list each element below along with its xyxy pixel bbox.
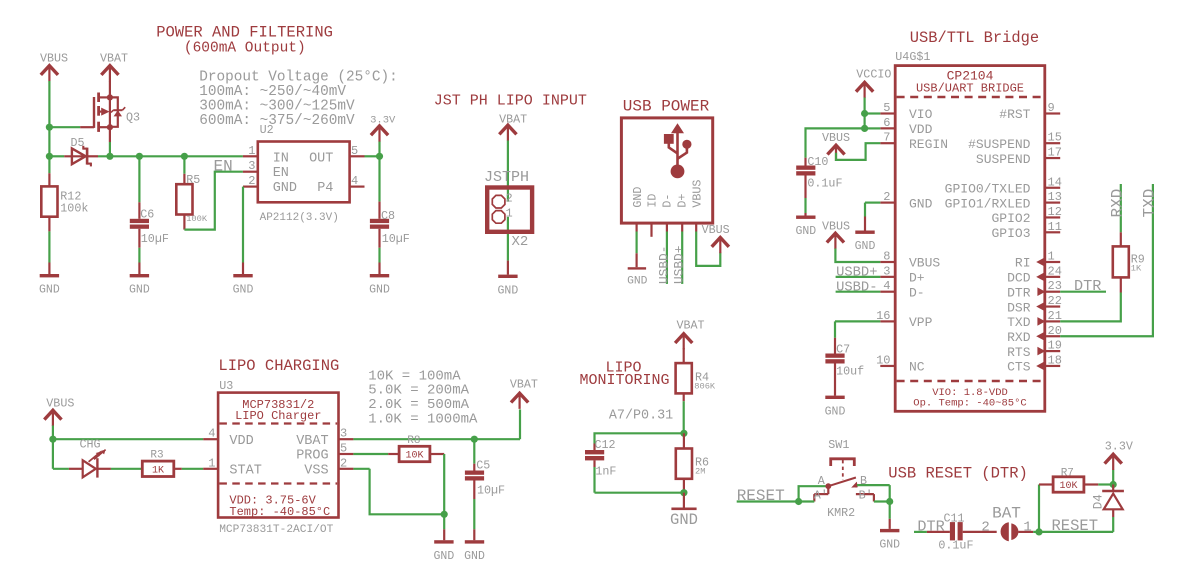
svg-text:USBD+: USBD+ (672, 246, 687, 284)
svg-text:OUT: OUT (309, 151, 333, 166)
svg-text:10uf: 10uf (836, 365, 864, 379)
pin 15 #SUSPEND (968, 131, 1062, 152)
svg-text:Q3: Q3 (126, 111, 140, 125)
net label EN (214, 157, 233, 175)
junction R7/D4 (1110, 481, 1117, 488)
pin 1 label (BAT) (1023, 519, 1031, 535)
net label RESET (right) (1052, 517, 1099, 535)
svg-text:4: 4 (883, 279, 890, 293)
svg-text:10K: 10K (405, 451, 423, 462)
pin 11 GPIO3 (991, 220, 1061, 241)
pin 5 OUT (350, 144, 365, 158)
svg-text:MONITORING: MONITORING (580, 372, 670, 389)
junction VDD tap (49, 436, 56, 443)
note prog resistor table (368, 368, 478, 427)
svg-text:0.1uF: 0.1uF (807, 176, 842, 190)
svg-text:VBUS: VBUS (46, 397, 74, 411)
supply VBAT (charger) (510, 378, 538, 409)
svg-text:USBD-: USBD- (836, 280, 877, 295)
svg-text:0.1uF: 0.1uF (938, 539, 973, 553)
capacitor C12 (585, 438, 616, 493)
junction VBUS/gate (46, 124, 53, 131)
svg-text:1: 1 (1023, 519, 1031, 535)
svg-text:VBAT: VBAT (499, 113, 527, 127)
svg-text:PROG: PROG (296, 449, 328, 464)
wire net DTR (1060, 291, 1106, 293)
diode D4 (1092, 485, 1124, 518)
pin 1 STAT num (208, 456, 215, 470)
wire VDD to C10 (806, 128, 865, 157)
svg-text:GND: GND (795, 225, 816, 238)
svg-text:RESET: RESET (1052, 517, 1099, 535)
pin 17 SUSPEND (976, 146, 1062, 167)
svg-text:GPIO3: GPIO3 (991, 226, 1030, 241)
svg-text:5: 5 (883, 101, 890, 115)
svg-text:D4: D4 (1092, 494, 1106, 509)
junction DTR/R7 (1035, 528, 1042, 535)
resistor R3 (142, 450, 182, 477)
svg-text:13: 13 (1048, 190, 1062, 204)
pin 3 VBAT (339, 427, 354, 441)
wire R5 to EN (184, 172, 243, 230)
pin 2 label (BAT) (981, 519, 989, 535)
svg-text:SUSPEND: SUSPEND (976, 152, 1031, 167)
svg-text:C10: C10 (807, 155, 828, 169)
title USB RESET (DTR) (888, 464, 1028, 482)
svg-text:GND: GND (855, 240, 876, 253)
svg-text:VDD: VDD (229, 434, 253, 449)
resistor R12 (41, 156, 88, 262)
wire R3 to STAT (182, 468, 218, 470)
wire VBUS to REGIN (836, 143, 880, 160)
supply VBAT (monitor) (675, 319, 704, 350)
svg-text:GND: GND (464, 550, 485, 563)
svg-text:ID: ID (646, 194, 660, 208)
wire D5 cathode rail (98, 155, 243, 157)
pin 13 GPIO1/RXLED (945, 190, 1062, 211)
svg-text:LIPO CHARGING: LIPO CHARGING (218, 357, 339, 375)
svg-text:RTS: RTS (1007, 345, 1031, 360)
switch SW1 KMR2 (814, 438, 874, 520)
pin 4 D- (880, 279, 924, 300)
svg-text:6: 6 (883, 116, 890, 130)
wire PROG to R8 (353, 453, 399, 455)
wire VBAT to X2 (507, 141, 509, 202)
supply VBAT (JST) (499, 113, 527, 141)
junction SW1 gnd (886, 498, 893, 505)
resistor R5 (176, 156, 208, 229)
resistor R4 (676, 348, 716, 433)
pin 16 VPP (876, 309, 933, 330)
pin 23 DTR (1007, 279, 1062, 300)
svg-text:VBUS: VBUS (690, 180, 704, 208)
svg-text:DCD: DCD (1007, 271, 1031, 286)
supply VBUS (USB) (702, 223, 730, 253)
wire VBUS down (52, 426, 54, 469)
svg-text:GND: GND (434, 550, 455, 563)
pin 4 VDD num (208, 427, 215, 441)
svg-text:17: 17 (1048, 146, 1062, 160)
title USB/TTL Bridge (910, 29, 1039, 47)
title POWER AND FILTERING (156, 24, 333, 57)
svg-text:2: 2 (340, 456, 347, 470)
pin 12 GPIO2 (991, 205, 1061, 226)
capacitor C6 (130, 156, 169, 262)
svg-text:GPIO2: GPIO2 (991, 211, 1030, 226)
svg-text:GND: GND (273, 181, 297, 196)
transistor Q3 (80, 93, 140, 132)
wire R9 to RXD label (1120, 184, 1122, 232)
wire BAT to junction (1033, 531, 1039, 533)
svg-text:GND: GND (879, 539, 900, 552)
supply VBUS (pin8) (822, 219, 850, 249)
ground C8 (369, 263, 390, 297)
wire VBAT rail (353, 409, 520, 439)
junction divider mid (680, 430, 687, 437)
svg-text:RXD: RXD (1108, 189, 1126, 218)
svg-text:MCP73831T-2ACI/OT: MCP73831T-2ACI/OT (219, 524, 333, 536)
junction divider bottom (680, 489, 687, 496)
svg-text:REGIN: REGIN (909, 137, 948, 152)
svg-text:IN: IN (273, 151, 289, 166)
note dropout voltage text (199, 70, 398, 129)
wire X2 to gnd (507, 217, 509, 261)
svg-text:3.3V: 3.3V (1105, 440, 1133, 454)
net label RXD (vertical) (1108, 189, 1126, 218)
svg-text:GND: GND (233, 284, 254, 297)
junction C5 tap (471, 436, 478, 443)
svg-text:VBUS: VBUS (822, 131, 850, 145)
svg-text:BAT: BAT (992, 505, 1021, 523)
svg-text:1: 1 (1048, 250, 1055, 264)
pin 22 DSR (1007, 294, 1062, 315)
svg-text:10: 10 (876, 353, 890, 367)
svg-text:TXD: TXD (1140, 189, 1158, 218)
wire VBAT to Q3 drain (109, 81, 111, 97)
solder jumper BAT (992, 505, 1033, 542)
svg-text:C5: C5 (476, 459, 490, 473)
svg-text:20: 20 (1048, 324, 1062, 338)
svg-text:1K: 1K (152, 466, 164, 477)
svg-text:19: 19 (1048, 339, 1062, 353)
svg-text:1nF: 1nF (595, 464, 616, 478)
svg-text:2M: 2M (695, 467, 705, 477)
ground pin2 (855, 217, 876, 254)
wire VBUS rail down (48, 81, 50, 156)
wire U2 gnd down (242, 187, 244, 263)
svg-text:10K: 10K (1059, 481, 1077, 492)
net label A7/P0.31 (609, 408, 673, 423)
svg-text:VSS: VSS (304, 464, 328, 479)
svg-text:7: 7 (883, 131, 890, 145)
svg-text:2: 2 (981, 519, 989, 535)
svg-text:GND: GND (39, 284, 60, 297)
junction VIO (861, 110, 868, 117)
ground C6 (129, 263, 150, 297)
svg-text:21: 21 (1048, 309, 1062, 323)
wire gate (49, 126, 80, 128)
svg-text:4: 4 (208, 427, 215, 441)
junction R5 tap (181, 153, 188, 160)
svg-text:GND: GND (627, 275, 648, 287)
svg-text:VIO: VIO (909, 107, 933, 122)
svg-text:4: 4 (351, 174, 358, 188)
svg-text:CHG: CHG (80, 438, 101, 452)
capacitor C5 (465, 439, 505, 529)
pin 10 NC (876, 353, 925, 374)
pin 8 VBUS (880, 250, 940, 271)
svg-text:U3: U3 (219, 379, 233, 393)
resistor R6 (676, 433, 709, 492)
svg-text:10µF: 10µF (382, 232, 410, 246)
svg-text:POWER AND FILTERING: POWER AND FILTERING (156, 24, 333, 42)
svg-text:D-: D- (661, 194, 675, 208)
wire D4 to RESET (1039, 517, 1113, 532)
ground U2 (233, 263, 254, 297)
wire to C12 (595, 433, 684, 443)
svg-text:A': A' (814, 489, 828, 503)
svg-text:GND: GND (498, 284, 519, 297)
supply VBAT (power) (100, 52, 128, 82)
pin 2 VSS (339, 456, 354, 470)
svg-text:DTR: DTR (1007, 285, 1031, 300)
resistor R7 (1039, 467, 1098, 492)
net label TXD (vertical) (1140, 189, 1158, 218)
svg-text:D+: D+ (909, 271, 925, 286)
wire R7 to 3.3V (1098, 470, 1113, 485)
svg-text:X2: X2 (512, 234, 529, 250)
svg-text:GND: GND (129, 284, 150, 297)
svg-text:14: 14 (1048, 175, 1062, 189)
svg-text:R3: R3 (150, 450, 163, 462)
connector X2 JSTPH (484, 169, 532, 250)
pin 2 GND (880, 190, 932, 211)
svg-text:2: 2 (883, 190, 890, 204)
wire SW1 B to gnd (857, 485, 890, 519)
svg-text:GND: GND (369, 284, 390, 297)
supply 3.3V (power) (370, 114, 396, 141)
svg-text:VDD: VDD (909, 122, 933, 137)
svg-text:1K: 1K (1131, 264, 1142, 274)
svg-text:P4: P4 (317, 181, 333, 196)
svg-text:CTS: CTS (1007, 360, 1031, 375)
wire VBUS pin to arrow (696, 223, 720, 266)
junction VSS/R8 (441, 511, 448, 518)
svg-text:C7: C7 (836, 343, 850, 357)
wire net USBD- (chip) (836, 291, 881, 293)
op-amp U2 AP2112 regulator (258, 123, 350, 224)
svg-text:KMR2: KMR2 (827, 506, 855, 520)
svg-text:VBAT: VBAT (677, 319, 705, 333)
net label USBD+ (836, 266, 877, 281)
svg-text:100K: 100K (186, 214, 208, 224)
svg-text:10µF: 10µF (141, 232, 169, 246)
wire C12 to gnd node (595, 492, 684, 494)
capacitor C8 (370, 156, 410, 262)
svg-text:#RST: #RST (999, 107, 1030, 122)
pin 1 RI (1015, 250, 1060, 271)
svg-text:D-: D- (909, 285, 925, 300)
pin 21 TXD (1007, 309, 1062, 330)
svg-text:15: 15 (1048, 131, 1062, 145)
svg-text:AP2112(3.3V): AP2112(3.3V) (260, 212, 339, 224)
svg-text:EN: EN (214, 157, 233, 175)
svg-text:USB/UART BRIDGE: USB/UART BRIDGE (916, 82, 1024, 96)
wire RXD pin to TXD label (1060, 184, 1153, 336)
wire TXD to R9 (1060, 293, 1121, 322)
title LIPO MONITORING (580, 360, 670, 390)
svg-text:3: 3 (883, 264, 890, 278)
svg-text:1: 1 (506, 207, 513, 221)
svg-text:JST PH LIPO INPUT: JST PH LIPO INPUT (434, 93, 587, 110)
svg-text:VCCIO: VCCIO (856, 68, 891, 82)
svg-text:10µF: 10µF (477, 484, 505, 498)
capacitor C11 (938, 512, 996, 553)
svg-text:2: 2 (248, 174, 255, 188)
capacitor C7 (825, 338, 864, 396)
wire OUT to 3.3V (365, 141, 380, 156)
svg-text:VBUS: VBUS (702, 223, 730, 237)
net label USBD+ (vertical) (672, 246, 687, 284)
svg-text:A7/P0.31: A7/P0.31 (609, 408, 673, 423)
svg-text:USB/TTL Bridge: USB/TTL Bridge (910, 29, 1039, 47)
pin 4 P4 (350, 174, 365, 188)
svg-text:TXD: TXD (1007, 315, 1031, 330)
junction D5/Q3 (106, 153, 113, 160)
svg-text:VBUS: VBUS (909, 256, 940, 271)
wire net USBD- (666, 223, 668, 284)
svg-text:9: 9 (1048, 101, 1055, 115)
svg-text:RXD: RXD (1007, 330, 1031, 345)
svg-text:3.3V: 3.3V (370, 114, 396, 126)
title JST PH LIPO INPUT (434, 93, 587, 110)
svg-text:VPP: VPP (909, 315, 933, 330)
svg-text:VBUS: VBUS (822, 219, 850, 233)
pin ID stub (650, 223, 652, 237)
svg-text:11: 11 (1048, 220, 1062, 234)
pin 6 VDD (880, 116, 932, 137)
svg-text:5: 5 (351, 144, 358, 158)
resistor R9 (1113, 232, 1145, 292)
svg-text:USB POWER: USB POWER (623, 97, 710, 115)
pin 24 DCD (1007, 264, 1062, 285)
wire Q3 source down (109, 127, 111, 156)
svg-text:1: 1 (208, 456, 215, 470)
svg-text:100k: 100k (60, 201, 88, 215)
capacitor C10 (796, 155, 842, 213)
pin 3 D+ (880, 264, 925, 285)
svg-text:EN: EN (273, 166, 289, 181)
svg-text:806K: 806K (694, 382, 716, 392)
svg-text:C11: C11 (944, 512, 965, 526)
wire VBUS to pin8 (835, 249, 880, 263)
ground R12 (39, 263, 60, 297)
wire net USBD+ (chip) (836, 276, 881, 278)
net label DTR (chip) (1074, 277, 1101, 295)
svg-text:5: 5 (340, 442, 347, 456)
svg-text:C12: C12 (595, 438, 616, 452)
junction RESET (795, 498, 802, 505)
svg-text:Temp: -40-85°C: Temp: -40-85°C (229, 505, 330, 519)
wire to D5 anode (49, 155, 64, 157)
svg-text:1: 1 (248, 144, 255, 158)
wire GND pin 2 (865, 203, 880, 217)
svg-text:18: 18 (1048, 353, 1062, 367)
svg-text:GPIO0/TXLED: GPIO0/TXLED (945, 181, 1031, 196)
junction VDD (861, 125, 868, 132)
svg-text:12: 12 (1048, 205, 1062, 219)
svg-text:GND: GND (670, 511, 698, 529)
ground SW1 (879, 519, 900, 552)
ground X2 (498, 261, 519, 298)
svg-text:GPIO1/RXLED: GPIO1/RXLED (945, 196, 1031, 211)
pin 19 RTS (1007, 339, 1062, 360)
net label USBD- (vertical) (656, 246, 671, 284)
svg-text:VBAT: VBAT (100, 52, 128, 66)
wire VSS to gnd (353, 469, 444, 515)
svg-text:USBD-: USBD- (656, 246, 671, 284)
junction OUT (376, 153, 383, 160)
svg-text:U4G$1: U4G$1 (895, 50, 930, 64)
svg-text:DTR: DTR (1074, 277, 1101, 295)
svg-text:23: 23 (1048, 279, 1062, 293)
pin 9 #RST (999, 101, 1060, 122)
pin 5 PROG (339, 442, 354, 456)
svg-text:SW1: SW1 (828, 438, 849, 452)
junction VBUS/D5 (46, 153, 53, 160)
wire net USBD+ (681, 223, 683, 284)
pin 5 VIO (880, 101, 932, 122)
svg-text:USB RESET (DTR): USB RESET (DTR) (888, 464, 1028, 482)
svg-text:(600mA Output): (600mA Output) (184, 41, 306, 57)
net label USBD- (836, 280, 877, 295)
svg-text:1.0K = 1000mA: 1.0K = 1000mA (368, 412, 478, 428)
net label DTR (reset) (917, 517, 944, 535)
pin 14 GPIO0/TXLED (945, 175, 1062, 196)
wire DTR to C11 (914, 531, 950, 533)
connector USB receptacle (621, 118, 712, 223)
ground R8/VSS (434, 514, 455, 563)
svg-text:VBAT: VBAT (296, 434, 328, 449)
svg-text:JSTPH: JSTPH (484, 169, 529, 186)
wire VDD (53, 438, 218, 440)
svg-text:GND: GND (825, 405, 846, 418)
pin 20 RXD (1007, 324, 1062, 345)
pin 2 GND (243, 174, 258, 188)
title LIPO CHARGING (218, 357, 339, 375)
wire VCCIO to VIO/VDD (865, 98, 881, 129)
svg-text:22: 22 (1048, 294, 1062, 308)
svg-text:GND: GND (909, 196, 933, 211)
pin 7 REGIN (880, 131, 948, 152)
svg-text:C6: C6 (140, 207, 154, 221)
pin GND stub (635, 223, 637, 253)
svg-text:24: 24 (1048, 264, 1062, 278)
wire VPP to C7 (835, 321, 880, 337)
svg-text:3: 3 (248, 159, 255, 173)
svg-text:STAT: STAT (229, 464, 261, 479)
IC U4G$1 CP2104 (895, 50, 1045, 411)
ground C10 (795, 213, 816, 238)
ground C5 (464, 529, 485, 563)
svg-text:DSR: DSR (1007, 300, 1031, 315)
pin 18 CTS (1007, 353, 1062, 374)
title USB POWER (623, 97, 710, 115)
svg-text:C8: C8 (381, 209, 395, 223)
svg-text:600mA: ~375/~260mV: 600mA: ~375/~260mV (199, 113, 355, 129)
net label RESET (switch) (737, 487, 785, 505)
svg-text:#SUSPEND: #SUSPEND (968, 137, 1031, 152)
